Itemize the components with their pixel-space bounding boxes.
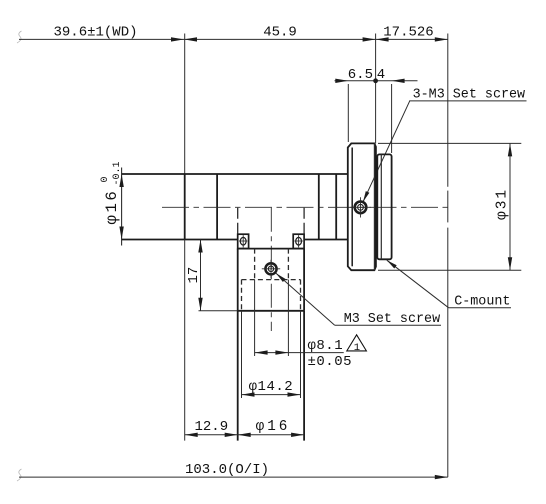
svg-text:17: 17: [186, 267, 202, 284]
phi16 dim arrows: [119, 174, 123, 240]
dimension text phi16 bottom: [256, 419, 291, 435]
svg-text:φ16: φ16: [256, 419, 291, 435]
phi31 dimension line: [508, 143, 512, 270]
svg-text:6.5: 6.5: [348, 67, 373, 83]
svg-text:φ16: φ16: [103, 189, 121, 225]
dimension dot at shared boundary: [373, 78, 378, 83]
object plane squiggle top: [17, 31, 22, 43]
dimension text 17: [186, 267, 202, 284]
dimension phi14.2 line: [242, 392, 301, 396]
dimension 103.0 line: [19, 475, 448, 479]
svg-text:103.0(O/I): 103.0(O/I): [185, 462, 269, 478]
svg-text:45.9: 45.9: [263, 25, 297, 41]
C-mount thread outline: [377, 154, 391, 259]
svg-text:φ14.2: φ14.2: [249, 379, 294, 395]
dimension 39.6±1(WD) line: [19, 37, 184, 41]
leader line 3-M3 set screw: [363, 101, 527, 202]
tube left wall: [237, 311, 239, 441]
dimension text 103.0(O/I): [185, 462, 269, 478]
dimension text phi8.1: [308, 338, 344, 354]
extension line x=184.7 lower: [184, 240, 186, 441]
barrel bottom line right: [304, 239, 348, 241]
block left side: [237, 249, 239, 311]
3-M3 set screw circles: [350, 197, 371, 217]
svg-text:M3 Set screw: M3 Set screw: [344, 312, 440, 327]
dimension text ±0.05: [308, 354, 353, 370]
dimension 12.9 line: [185, 433, 238, 437]
barrel top line: [122, 173, 348, 175]
svg-text:-0.1: -0.1: [112, 161, 123, 185]
barrel left face / phi16 dim line: [121, 168, 123, 246]
svg-text:C-mount: C-mount: [454, 295, 510, 310]
C-mount relief line: [380, 154, 382, 259]
block right side: [303, 249, 305, 311]
block top line: [238, 248, 304, 250]
barrel step line x=318.8: [318, 174, 320, 240]
barrel step line x=184.7: [184, 174, 186, 240]
dimension 17 line: [198, 240, 202, 311]
dimension text 45.9: [263, 25, 297, 41]
vertical axis centerline: [270, 208, 272, 331]
dimension 6.5 line: [335, 79, 376, 83]
phi31 extension top: [378, 142, 521, 144]
dimension text phi31: [495, 188, 511, 220]
dimension text 4: [377, 67, 385, 83]
barrel bottom line left: [122, 239, 238, 241]
dimension text phi14.2: [249, 379, 294, 395]
flange chamfer edge right: [373, 143, 375, 270]
svg-text:17.526: 17.526: [383, 25, 433, 41]
flange chamfer edge left: [351, 148, 353, 267]
label text M3 Set screw: [344, 312, 440, 327]
leader line M3 set screw: [276, 273, 441, 325]
hidden phi14.2 line right: [300, 280, 302, 398]
label text 3-M3 Set screw: [413, 87, 525, 102]
svg-text:1: 1: [354, 342, 360, 354]
dimension 45.9 line: [184, 37, 376, 41]
dimension text 17.526: [383, 25, 433, 41]
dimension text 6.5: [348, 67, 373, 83]
tube right wall: [303, 311, 305, 441]
svg-text:±0.05: ±0.05: [308, 354, 353, 370]
phi31 extension bottom: [378, 269, 521, 271]
hidden phi8.1 line right: [287, 249, 289, 356]
extension line x=391.6 (C-mount end): [391, 84, 393, 153]
flange outline: [348, 143, 376, 270]
clamp screw right: [294, 235, 302, 247]
extension line x=184 (WD/45.9 boundary): [184, 34, 186, 175]
hidden phi14.2 line left: [241, 280, 243, 398]
extension line x=375.6 (flange face): [375, 34, 377, 144]
M3 set screw circles: [262, 260, 280, 279]
barrel step line x=336.2: [335, 174, 337, 240]
clamp screw square right: [293, 234, 304, 248]
image plane vertical line: [447, 34, 449, 478]
dimension 17.526 line: [376, 37, 448, 41]
dimension text 39.6±1(WD): [53, 25, 137, 41]
dimension phi8.1 line: [255, 350, 344, 354]
hidden tube edges inside barrel: [238, 208, 304, 234]
leader line C-mount: [387, 260, 511, 308]
clamp screw left: [239, 235, 247, 247]
dimension 4 line: [376, 79, 418, 83]
object plane squiggle bottom: [17, 469, 22, 481]
hidden phi8.1 line left: [254, 249, 256, 356]
extension line x=348.3 (flange left face): [347, 84, 349, 142]
label text C-mount: [454, 295, 510, 310]
block bottom line with 17-extension: [199, 310, 305, 312]
dimension text phi16 with tolerance: [100, 161, 123, 224]
svg-text:3-M3 Set screw: 3-M3 Set screw: [413, 87, 525, 102]
svg-text:0: 0: [100, 176, 111, 182]
hidden counterbore top line: [242, 279, 301, 281]
clamp screw square left: [238, 234, 249, 248]
svg-text:φ8.1: φ8.1: [308, 338, 344, 354]
dimension text 12.9: [194, 419, 228, 435]
svg-text:39.6±1(WD): 39.6±1(WD): [53, 25, 137, 41]
svg-text:φ31: φ31: [495, 188, 511, 220]
horizontal centerline: [162, 206, 448, 208]
barrel step line x=217: [216, 174, 218, 240]
dimension phi16 bottom line: [238, 433, 304, 437]
svg-text:12.9: 12.9: [194, 419, 228, 435]
revision triangle 1: [347, 335, 367, 354]
